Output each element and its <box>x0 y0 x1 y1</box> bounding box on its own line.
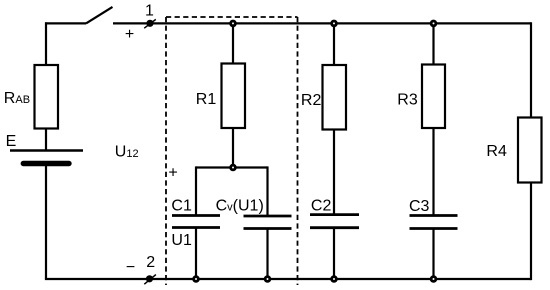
junction on top rail at R3 <box>430 20 438 28</box>
dashed box (U1 section boundary) <box>166 17 298 285</box>
svg-text:U1: U1 <box>171 232 192 249</box>
svg-text:2: 2 <box>146 254 155 271</box>
svg-text:C2: C2 <box>311 198 332 215</box>
resistor R1 <box>222 64 246 129</box>
wire R1 bottom to node <box>232 128 234 168</box>
resistor RAB <box>35 65 59 129</box>
wire top-left horizontal <box>45 22 86 24</box>
capacitor C1 plates <box>172 214 220 217</box>
junction bottom rail at C1 <box>192 275 200 283</box>
svg-text:+: + <box>125 26 134 43</box>
wire C2 bottom <box>333 228 335 279</box>
svg-text:C3: C3 <box>409 198 430 215</box>
wire top rail <box>113 22 531 24</box>
capacitor Cv(U1) plates <box>244 215 292 218</box>
wire R1 top <box>232 23 234 64</box>
svg-text:1: 1 <box>145 3 154 20</box>
junction on top rail at R1 <box>229 20 237 28</box>
wire C3 bottom <box>432 229 434 280</box>
battery E short plate <box>23 161 69 166</box>
wire C1 bottom <box>195 228 197 279</box>
wire C1 top <box>195 166 197 215</box>
wire left vertical to RAB <box>45 22 47 66</box>
wire Cv bottom <box>266 229 268 280</box>
node 1 terminal dot with tick <box>144 19 156 28</box>
wire RAB to battery <box>45 128 47 150</box>
node 2 terminal dot with tick <box>144 275 156 285</box>
svg-text:Cv(U1): Cv(U1) <box>216 197 264 214</box>
svg-text:−: − <box>126 259 135 276</box>
junction bottom rail at C2 <box>330 275 338 283</box>
svg-text:R3: R3 <box>397 91 418 108</box>
wire battery to bottom rail <box>45 164 47 280</box>
junction bottom rail at Cv <box>264 275 272 283</box>
wire R2 top <box>333 23 335 66</box>
resistor R2 <box>323 65 347 130</box>
junction on top rail at R2 <box>330 20 338 28</box>
junction bottom rail at C3 <box>430 275 438 283</box>
capacitor C3 plates <box>410 214 458 217</box>
battery E long plate <box>10 149 83 152</box>
resistor R3 <box>422 65 445 129</box>
svg-text:R2: R2 <box>301 92 322 109</box>
svg-text:R1: R1 <box>196 91 217 108</box>
capacitor C2 plates <box>310 213 359 216</box>
svg-text:E: E <box>6 133 17 150</box>
junction node below R1 <box>229 164 237 172</box>
wire right vertical lower (R4 to bottom rail) <box>530 182 532 280</box>
wire R3 top <box>432 23 434 65</box>
svg-text:C1: C1 <box>171 198 192 215</box>
wire Cv top <box>266 166 268 215</box>
wire R3 to C3 <box>432 127 434 216</box>
wire right vertical upper (top rail to R4) <box>530 22 532 118</box>
svg-text:+: + <box>168 165 177 182</box>
resistor R4 <box>518 118 542 183</box>
switch S blade <box>86 7 113 24</box>
wire bottom rail <box>45 278 531 280</box>
wire R2 to C2 <box>333 129 335 215</box>
svg-text:R4: R4 <box>486 143 507 160</box>
wire capacitor bus horizontal <box>196 166 268 168</box>
